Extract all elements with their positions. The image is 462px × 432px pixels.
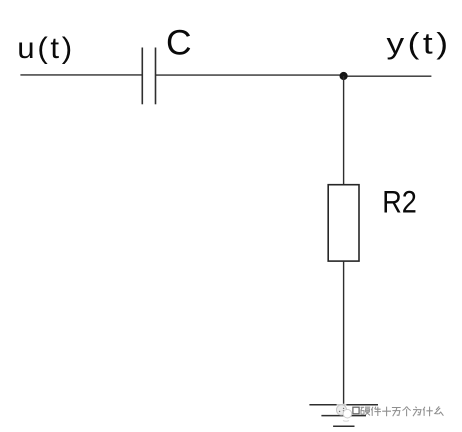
svg-text:C: C: [166, 22, 192, 62]
svg-text:u(t): u(t): [17, 33, 74, 65]
svg-text:R2: R2: [382, 185, 417, 220]
svg-text:y(t): y(t): [387, 27, 452, 60]
